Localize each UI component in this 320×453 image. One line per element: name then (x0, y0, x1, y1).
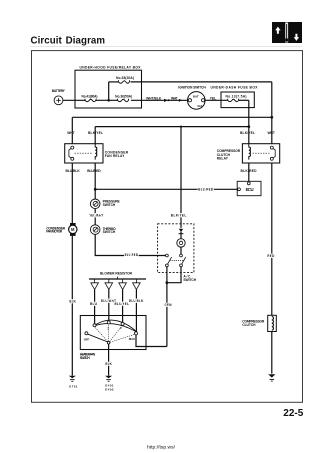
diagram border frame (32, 51, 303, 403)
compressor clutch coil (268, 315, 277, 331)
svg-text:FAN RELAY: FAN RELAY (105, 154, 125, 158)
wire battery to ignition switch (main line) (63, 99, 85, 101)
svg-text:No.41(80A): No.41(80A) (82, 94, 98, 98)
condenser fan motor (70, 223, 76, 226)
wire WHT vertical right (271, 82, 273, 144)
svg-text:G402: G402 (105, 388, 114, 392)
svg-text:WHT: WHT (171, 96, 178, 100)
svg-text:WHT: WHT (267, 131, 275, 135)
svg-text:No.36(50A): No.36(50A) (115, 94, 132, 98)
wire branch up to 30A fuse (108, 82, 110, 100)
A/C switch contacts (166, 254, 169, 257)
svg-text:M: M (71, 227, 75, 232)
svg-text:RED: RED (267, 254, 275, 258)
svg-text:ECU: ECU (246, 187, 254, 192)
fan switch contact arc (94, 320, 138, 332)
wires blower resistor to heater fan switch (94, 290, 96, 324)
svg-text:IG2: IG2 (197, 104, 202, 108)
ignition switch (188, 92, 206, 110)
svg-text:BLK/YEL: BLK/YEL (240, 131, 255, 135)
wire BLK/YEL drop to condenser fan relay coil (94, 127, 96, 144)
svg-text:BAT: BAT (193, 95, 199, 99)
svg-text:BLU/BLK: BLU/BLK (65, 169, 80, 173)
svg-text:G751: G751 (69, 384, 78, 388)
faint header underline (30, 46, 302, 48)
heater fan switch box (80, 316, 146, 350)
battery circle (54, 96, 63, 105)
svg-text:http://tsp.ws/: http://tsp.ws/ (147, 445, 176, 450)
fuse No.41 (80A) (85, 99, 96, 102)
svg-text:BLU/BLK: BLU/BLK (129, 299, 144, 303)
svg-text:BLU/YEL: BLU/YEL (115, 302, 130, 306)
wires A/C switch to GRN output (166, 267, 168, 347)
svg-text:BLOWER RESISTOR: BLOWER RESISTOR (100, 271, 133, 275)
wire BLK/YEL horizontal bus (95, 126, 249, 128)
wire motor to ground G751 (71, 236, 73, 376)
A/C switch dashed box (158, 224, 194, 273)
pivot (107, 341, 110, 344)
wire YEL/WHT (94, 209, 96, 225)
fan switch wiper (solid to OFF) (88, 334, 108, 342)
wire BLK/YEL drop to A/C switch (180, 127, 182, 228)
thermo switch (90, 225, 100, 235)
fuse No.38 (30A) (119, 80, 130, 83)
connector arrow WHT/BLK to WHT (164, 99, 182, 102)
svg-text:YEL/WHT: YEL/WHT (89, 213, 103, 217)
wire BLK fan switch to ground (108, 344, 110, 376)
svg-text:MAX: MAX (129, 337, 135, 341)
svg-text:BLK/YEL: BLK/YEL (171, 213, 187, 217)
svg-text:WHT: WHT (67, 131, 75, 135)
under-dash fuse box (221, 92, 254, 108)
indicator bulb (177, 239, 185, 247)
svg-text:SWITCH: SWITCH (80, 356, 91, 360)
wire BLK/YEL down from fuse 13 (248, 100, 250, 143)
ground (compressor clutch) (268, 374, 275, 381)
wire BLU/RED condenser fan relay coil down (94, 163, 96, 199)
wire ignition to under-dash fuse box (205, 99, 228, 101)
svg-text:BLK: BLK (105, 362, 112, 366)
blower resistor (89, 278, 146, 280)
svg-text:UNDER-DASH FUSE BOX: UNDER-DASH FUSE BOX (211, 86, 259, 90)
under-hood fuse/relay box (75, 70, 142, 108)
ground G401/G402 (heater fan switch) (105, 376, 112, 382)
svg-text:RELAY: RELAY (217, 157, 229, 161)
svg-text:UNDER-HOOD FUSE/RELAY BOX: UNDER-HOOD FUSE/RELAY BOX (80, 65, 142, 69)
svg-text:BATTERY: BATTERY (52, 89, 66, 93)
svg-text:BLU/RED: BLU/RED (198, 187, 214, 191)
svg-text:GRN: GRN (165, 303, 173, 307)
wire BLK/RED relay to ECU (248, 163, 250, 181)
svg-text:No.13(7.5A): No.13(7.5A) (226, 95, 247, 99)
svg-text:BLK: BLK (69, 299, 76, 303)
svg-text:YEL: YEL (210, 96, 217, 100)
svg-text:SWITCH: SWITCH (183, 278, 196, 282)
diode arrow into A/C switch (179, 229, 183, 232)
wire BLU/RED to A/C switch (95, 234, 165, 255)
svg-text:CLUTCH: CLUTCH (242, 323, 256, 327)
wire WHT drop to condenser fan relay (71, 117, 73, 143)
compressor clutch relay box (242, 144, 279, 163)
svg-text:BLK/YEL: BLK/YEL (88, 131, 103, 135)
ECU box (237, 181, 261, 195)
ground G751 (condenser fan motor) (69, 376, 76, 382)
svg-text:BLU: BLU (90, 302, 98, 306)
svg-text:SWITCH: SWITCH (103, 230, 116, 234)
temperature control icon (black box, arrows) (272, 22, 302, 43)
svg-text:BLU/RED: BLU/RED (125, 253, 139, 257)
svg-text:OFF: OFF (84, 338, 90, 342)
wire BLU/RED to ECU (95, 188, 237, 190)
pressure switch (90, 199, 100, 209)
fuse No.13 (7.5A) (228, 99, 239, 102)
svg-text:BLK/RED: BLK/RED (241, 169, 258, 173)
fuse No.36 (50A) (118, 99, 129, 102)
svg-text:SWITCH: SWITCH (103, 203, 116, 207)
wire GRN into heater fan switch (136, 335, 167, 347)
svg-text:Circuit Diagram: Circuit Diagram (31, 35, 106, 46)
svg-text:BLU/RED: BLU/RED (87, 169, 101, 173)
svg-text:22-5: 22-5 (283, 408, 303, 419)
svg-text:FAN MOTOR: FAN MOTOR (46, 230, 63, 234)
wire WHT compressor clutch relay down (271, 163, 273, 315)
wire BLU/BLK relay to condenser fan motor (71, 163, 73, 223)
wire WHT horizontal bus (72, 116, 271, 118)
condenser fan relay box (65, 144, 103, 163)
svg-text:No.38(30A): No.38(30A) (116, 76, 134, 80)
junction dots (94, 99, 273, 284)
OFF contact (85, 332, 88, 335)
svg-text:IGNITION SWITCH: IGNITION SWITCH (178, 86, 206, 90)
svg-text:WHT/BLK: WHT/BLK (146, 96, 162, 100)
